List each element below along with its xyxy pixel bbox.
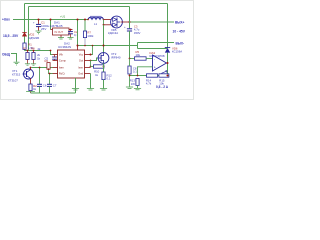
- resistor R10: [91, 65, 104, 77]
- svg-text:100k: 100k: [87, 34, 94, 38]
- ground R13: [134, 88, 141, 89]
- svg-text:R6: R6: [45, 59, 49, 63]
- resistor R13: [130, 78, 139, 88]
- svg-text:Isen: Isen: [59, 66, 64, 70]
- svg-text:+U1: +U1: [60, 15, 66, 19]
- junction source: [103, 66, 105, 68]
- junction fb row mid: [137, 75, 139, 77]
- ground box: [72, 89, 79, 90]
- ground main: [14, 62, 20, 65]
- svg-text:КД522Б: КД522Б: [29, 36, 40, 40]
- svg-text:ВЫХ+: ВЫХ+: [175, 20, 185, 24]
- capacitor C6: [37, 67, 47, 93]
- ground R12: [100, 89, 107, 90]
- svg-text:4,7k: 4,7k: [146, 82, 152, 86]
- ground bar left: [26, 90, 35, 92]
- ground gnd pin: [87, 89, 94, 90]
- diode VD5 dual circle: [103, 16, 130, 35]
- wire vcc top pin: [77, 20, 79, 46]
- wire top feedback inner: [29, 6, 130, 8]
- capacitor C3: [124, 22, 140, 59]
- junction R3 top: [27, 50, 29, 52]
- wire zener down: [167, 53, 169, 76]
- transistor VT2: [98, 25, 121, 64]
- svg-text:0,1: 0,1: [133, 70, 137, 74]
- junction cs left: [90, 66, 92, 68]
- junction opamp out: [167, 62, 169, 64]
- svg-text:Vcc: Vcc: [79, 53, 84, 57]
- svg-text:UC3842N: UC3842N: [58, 45, 71, 49]
- resistor R7: [83, 20, 94, 46]
- junction 78l05 input: [50, 19, 52, 21]
- pin Vfb: [53, 53, 64, 57]
- ground DA1: [58, 38, 64, 39]
- svg-text:КД213А: КД213А: [108, 31, 118, 35]
- svg-text:450V: 450V: [134, 31, 141, 35]
- svg-text:+Uвх: +Uвх: [2, 17, 10, 21]
- ground R4: [31, 64, 36, 65]
- wire vt1 collector: [32, 67, 53, 69]
- junction rail x77: [77, 19, 79, 21]
- wire drain net: [78, 45, 138, 47]
- wire inner drop: [129, 7, 131, 23]
- svg-text:КТ315: КТ315: [12, 73, 21, 77]
- IC DA2 box: [58, 41, 85, 78]
- junction C2: [70, 29, 72, 31]
- resistor R3: [23, 47, 29, 64]
- pin Gnd: [78, 72, 90, 76]
- svg-text:10 - 45V: 10 - 45V: [173, 30, 186, 34]
- svg-text:LM78L05: LM78L05: [50, 24, 63, 28]
- resistor R14: [146, 74, 158, 86]
- wire out branch down: [90, 61, 92, 67]
- svg-text:18,5 - 25V: 18,5 - 25V: [3, 34, 19, 38]
- junction R4 top: [33, 50, 35, 52]
- resistor R4: [31, 47, 41, 64]
- junction C3 top: [129, 21, 131, 23]
- junction fb: [50, 50, 52, 52]
- resistor R12 sense: [102, 72, 112, 88]
- svg-text:Vfb: Vfb: [59, 53, 63, 57]
- junction vcc jog top: [92, 45, 94, 47]
- wire vertical left inner: [28, 7, 30, 51]
- wire source: [103, 63, 105, 72]
- regulator DA1: [50, 21, 73, 38]
- pin Vcc: [79, 53, 91, 57]
- junction vt1 wire: [48, 67, 50, 69]
- wire 78l05 input: [50, 20, 52, 30]
- svg-text:Comp: Comp: [59, 59, 66, 63]
- svg-text:0,1: 0,1: [107, 77, 111, 81]
- transistor VT1: [8, 68, 34, 85]
- svg-text:R3: R3: [23, 47, 27, 51]
- svg-text:Out: Out: [79, 59, 83, 63]
- svg-text:Rt/Ct: Rt/Ct: [59, 72, 65, 76]
- resistor R6: [45, 59, 53, 74]
- svg-text:КТ3107: КТ3107: [8, 79, 18, 83]
- junction R7 bottom: [84, 45, 86, 47]
- junction pot right: [167, 75, 169, 77]
- ground rail bottom: [31, 92, 76, 94]
- wire fb divider row: [130, 75, 147, 77]
- svg-text:C6: C6: [43, 84, 47, 88]
- svg-text:L1: L1: [94, 22, 98, 26]
- wire vertical left outer: [24, 4, 26, 51]
- wire c8 down: [129, 59, 131, 87]
- junction opamp feed: [129, 58, 131, 60]
- wire out minus: [138, 42, 175, 44]
- wire fb feed: [51, 51, 53, 55]
- capacitor C5: [45, 57, 57, 61]
- wire gnd label: [11, 54, 17, 62]
- svg-text:+: +: [154, 66, 156, 70]
- junction out: [90, 60, 92, 62]
- svg-text:IRF840: IRF840: [111, 55, 121, 59]
- ground C8: [126, 87, 133, 88]
- zener VD6: [165, 46, 182, 53]
- junction fb row left: [129, 75, 131, 77]
- wire vcc jog: [91, 46, 93, 55]
- svg-text:IN OUT: IN OUT: [55, 31, 64, 34]
- wire drain corner: [138, 43, 168, 49]
- opamp DA3: [150, 51, 168, 71]
- svg-text:25V: 25V: [41, 27, 46, 31]
- junction drain left: [77, 45, 79, 47]
- diode VD2: [22, 32, 39, 39]
- pin Comp: [53, 59, 67, 63]
- svg-text:Gnd: Gnd: [78, 72, 83, 76]
- wire top feedback outer: [25, 3, 168, 5]
- pin vcc top: [77, 46, 79, 51]
- resistor R5 to opamp: [130, 50, 153, 60]
- wire divider top: [25, 50, 51, 52]
- ground for C1: [36, 31, 42, 34]
- resistor R1: [23, 42, 34, 49]
- junction C1/rail: [38, 19, 40, 21]
- potentiometer R15: [158, 71, 169, 86]
- wire plus input: [138, 67, 153, 76]
- pin Isen left: [53, 66, 65, 70]
- capacitor C2: [68, 30, 78, 38]
- capacitor C1: [33, 20, 50, 32]
- wire output vertical: [167, 4, 169, 48]
- junction drain: [103, 45, 105, 47]
- wire out rail: [130, 21, 175, 23]
- svg-text:1W: 1W: [131, 82, 136, 86]
- ground C2: [68, 38, 74, 39]
- svg-text:К140УД708: К140УД708: [150, 54, 165, 58]
- capacitor C7: [47, 73, 57, 93]
- junction vcc: [90, 54, 92, 56]
- pin RtCt: [53, 72, 66, 76]
- capacitor C8: [128, 66, 137, 74]
- resistor R2: [29, 84, 37, 93]
- wire box bottom gnd: [75, 78, 77, 93]
- junction R7 rail: [84, 19, 86, 21]
- inductor L1: [87, 17, 104, 26]
- wire comp cap stub: [54, 55, 56, 57]
- svg-text:0,8 - 2 A: 0,8 - 2 A: [156, 85, 169, 89]
- svg-text:ВЫХ-: ВЫХ-: [176, 41, 185, 45]
- svg-text:10k: 10k: [136, 53, 141, 57]
- svg-text:КС156А: КС156А: [172, 50, 182, 54]
- wire gnd pin down: [90, 74, 92, 89]
- svg-text:ОБЩ: ОБЩ: [2, 52, 11, 56]
- wire input rail: [13, 19, 89, 21]
- ground R3: [25, 64, 30, 65]
- pin Out: [79, 59, 91, 63]
- junction vt1 collector: [30, 67, 32, 69]
- pin Isen right: [78, 66, 90, 70]
- page edge frame: [1, 1, 194, 100]
- wire out to gate: [91, 58, 99, 61]
- svg-text:C7: C7: [53, 84, 57, 88]
- svg-text:Isen: Isen: [78, 66, 83, 70]
